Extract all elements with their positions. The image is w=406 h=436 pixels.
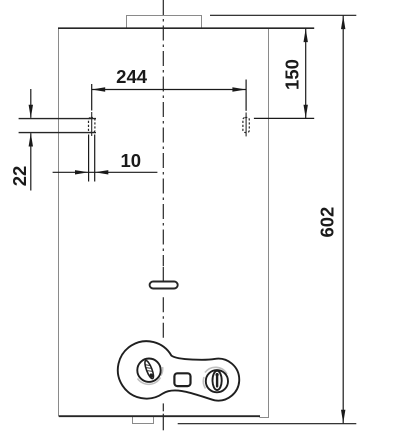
- svg-text:244: 244: [116, 66, 148, 87]
- svg-text:22: 22: [9, 166, 30, 187]
- svg-text:150: 150: [282, 59, 303, 90]
- svg-text:10: 10: [121, 150, 142, 171]
- svg-text:602: 602: [316, 207, 337, 238]
